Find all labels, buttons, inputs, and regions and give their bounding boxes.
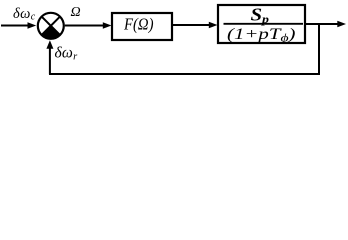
svg-text:Ω: Ω (71, 5, 81, 20)
wire feedback bottom (49, 73, 320, 75)
wire feedback vertical right (318, 24, 320, 74)
wire feedback vertical left (49, 46, 51, 74)
node: arrowhead into F block (103, 22, 112, 28)
block Sp/(1+pTphi) (218, 5, 305, 45)
wire circle to F block (65, 25, 105, 27)
node: arrowhead into circle (28, 22, 37, 28)
node: output arrowhead (337, 21, 346, 27)
summing junction (mixer) (38, 13, 64, 39)
wire input (1, 25, 30, 27)
svg-text:F(Ω): F(Ω) (123, 15, 154, 34)
node: arrowhead into Sp block (209, 22, 218, 28)
block F(Omega) (112, 13, 172, 40)
node: feedback arrowhead up into circle (46, 40, 53, 49)
wire output (305, 23, 339, 25)
wire F block to Sp block (172, 24, 211, 26)
